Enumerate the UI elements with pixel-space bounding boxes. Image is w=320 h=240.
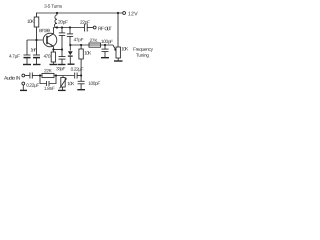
junction dot C7 (104, 44, 106, 46)
svg-text:27K: 27K (90, 38, 99, 44)
svg-text:0.22µF: 0.22µF (71, 67, 84, 73)
capacitor C3 bottom lead to emitter (61, 35, 63, 49)
wire R3 bottom lead to audio node (80, 59, 82, 76)
ground G3 (50, 64, 58, 66)
capacitor C10 0.22uF series plates (74, 73, 76, 79)
terminal audio in lower (22, 82, 25, 85)
wire emitter node (53, 49, 62, 51)
wire C1 to ground (26, 58, 28, 64)
capacitor C3 20pF top lead (61, 28, 63, 33)
capacitor C4 47pF plates (67, 33, 73, 35)
wire resistor R1 bottom lead to base (36, 27, 38, 40)
wire 1.8nF loop right (49, 76, 56, 84)
svg-text:100pF: 100pF (101, 39, 113, 45)
wire resistor R1 top lead (36, 13, 38, 17)
wire 1nF branch (36, 40, 38, 55)
wire 22K to pot (54, 75, 74, 77)
resistor R1 10K base bias (34, 17, 39, 27)
junction dot emitter C6 (61, 48, 63, 50)
capacitor C4 bottom lead (69, 36, 71, 45)
wire C7 to ground (104, 52, 106, 58)
junction dot coil top (56, 12, 58, 14)
wire R2 top lead (52, 46, 54, 52)
svg-text:OUT: OUT (104, 26, 111, 32)
ground G6 (101, 57, 109, 59)
junction dot audio left (39, 74, 41, 76)
wire C11 to ground (80, 84, 82, 89)
junction dot C3 top (61, 26, 63, 28)
svg-text:100pF: 100pF (88, 81, 100, 87)
potentiometer VR1 wiper arrow (113, 45, 116, 50)
svg-text:3-5 Turns: 3-5 Turns (44, 4, 63, 10)
terminal audio in upper (22, 74, 25, 77)
transistor Q1 BF199 circle (43, 33, 57, 47)
svg-text:Tuning: Tuning (136, 53, 149, 59)
junction dot varicap (69, 44, 71, 46)
svg-text:10K: 10K (84, 51, 92, 57)
capacitor C6 33pF plates (59, 56, 66, 58)
svg-text:12V: 12V (128, 11, 138, 17)
svg-text:Frequency: Frequency (133, 47, 154, 53)
svg-text:0.22µF: 0.22µF (26, 83, 39, 89)
wire to RF OUT terminal (87, 27, 93, 29)
capacitor C8 0.22uF input plates (29, 73, 31, 79)
capacitor C7 100pF lead (104, 45, 106, 49)
capacitor C6 33pF top lead (61, 50, 63, 57)
svg-text:22K: 22K (44, 68, 53, 74)
resistor R2 470 emitter (51, 52, 55, 62)
capacitor C11 100pF plates (78, 80, 85, 82)
svg-text:1nF: 1nF (30, 47, 37, 53)
wire collector rail (53, 27, 84, 29)
inductor L1 3-5 turns coil (54, 15, 57, 28)
ground G1 (23, 64, 31, 66)
transistor Q1 emitter arrow (51, 44, 53, 46)
potentiometer VR2 arrow (60, 79, 67, 89)
capacitor C2 1nF plates (33, 54, 40, 56)
junction dot 12V drop (117, 12, 119, 14)
potentiometer VR1 10K body (116, 47, 120, 58)
ground G7 (114, 60, 123, 62)
diode D1 cathode bar (68, 55, 73, 57)
capacitor C4 47pF top lead (69, 28, 71, 34)
svg-text:47pF: 47pF (74, 37, 84, 43)
svg-text:33pF: 33pF (56, 66, 66, 72)
wire R3 top lead (80, 45, 82, 49)
capacitor C7 100pF plates (102, 48, 109, 50)
wire top rail 12V (36, 12, 123, 14)
junction dot coil bottom (56, 26, 58, 28)
wire 4.7uF branch (26, 40, 28, 55)
svg-text:BF199: BF199 (39, 28, 50, 34)
capacitor C5 22pF output plates (84, 24, 86, 32)
ground G10 (77, 89, 85, 91)
capacitor C9 1.8nF plates (46, 81, 48, 86)
wire D1 to ground (69, 57, 71, 64)
svg-text:4.7µF: 4.7µF (9, 54, 20, 60)
capacitor C3 20pF plates (59, 32, 65, 34)
resistor R3 10K vertical (79, 49, 83, 59)
wire audio line (25, 75, 30, 77)
ground G2 (33, 64, 41, 66)
capacitor C1 4.7uF plates (24, 54, 31, 56)
svg-text:1.8nF: 1.8nF (44, 86, 55, 92)
wire collector riser (52, 28, 54, 35)
resistor R5 22K body (42, 73, 54, 77)
svg-text:470: 470 (43, 54, 50, 60)
wire R2 bottom lead (52, 62, 54, 64)
ground G5 (68, 63, 75, 65)
diode D1 varicap triangle (68, 51, 73, 55)
junction dot R3 top (80, 44, 82, 46)
terminal 12V (123, 12, 126, 15)
wire varicap node line (70, 44, 113, 46)
inductor L1 lead top (56, 13, 58, 15)
svg-text:10K: 10K (67, 81, 75, 87)
junction dot base (35, 39, 37, 41)
wire 1.8nF loop left (40, 76, 46, 84)
svg-text:20pF: 20pF (58, 20, 68, 26)
wire audio to 22K (32, 75, 42, 77)
ground G4 (58, 64, 66, 66)
potentiometer VR2 10K audio lead (62, 76, 64, 78)
junction dot C4 top (69, 26, 71, 28)
terminal RF OUT (93, 26, 96, 29)
junction dot node A (80, 74, 82, 76)
wire 12V drop to tuning pot (117, 13, 119, 47)
wire VR2 bottom lead (61, 87, 63, 90)
wire C2 to ground (36, 58, 38, 64)
junction dot emitter (52, 48, 54, 50)
capacitor C11 100pF lead (80, 76, 82, 82)
wire base node (27, 39, 43, 41)
wire C6 to ground (61, 59, 63, 64)
svg-text:22pF: 22pF (80, 20, 90, 26)
wire C10 to node A (77, 75, 81, 77)
ground G9 (58, 89, 66, 91)
junction dot audio right (55, 74, 57, 76)
diode D1 varicap lead (69, 45, 71, 51)
svg-text:RF: RF (98, 26, 104, 32)
wire VR1 bottom lead (117, 58, 119, 61)
transistor Q1 base bar (46, 36, 48, 44)
potentiometer VR2 10K body (61, 78, 65, 88)
resistor R4 27K horizontal (89, 43, 101, 47)
wire audio lower terminal to ground (22, 85, 24, 90)
svg-text:10K: 10K (121, 46, 129, 52)
transistor Q1 emitter stroke (47, 42, 53, 46)
transistor Q1 collector stroke (47, 34, 53, 38)
svg-text:10K: 10K (27, 19, 35, 25)
ground G8 (20, 89, 27, 91)
svg-text:Audio IN: Audio IN (4, 76, 21, 82)
